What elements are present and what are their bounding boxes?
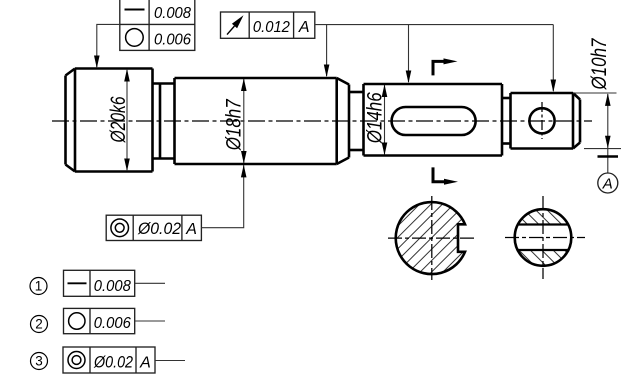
dimension Ø18h7 bbox=[243, 79, 245, 163]
note 3 balloon bbox=[31, 353, 48, 370]
note 1 frame straightness 0.008 bbox=[64, 270, 135, 296]
concentricity symbol bbox=[111, 219, 129, 237]
dimension Ø20k6 bbox=[126, 70, 128, 170]
leader arrow onto segment 4 bbox=[551, 80, 557, 93]
svg-text:0.006: 0.006 bbox=[94, 315, 131, 332]
neck groove between segment 3 and 4 bbox=[502, 98, 511, 144]
leader from concentricity frame to segment 2 bottom bbox=[201, 165, 243, 228]
svg-text:1: 1 bbox=[35, 279, 43, 294]
leader from straightness frame to segment 1 bbox=[97, 24, 120, 67]
leader arrow onto segment 2 bbox=[324, 65, 330, 78]
hole chords in right section bbox=[518, 225, 569, 251]
feature control frame concentricity (middle left) bbox=[106, 215, 201, 240]
main shaft centerline bbox=[52, 120, 592, 122]
section cut marker bottom bbox=[433, 167, 448, 181]
svg-text:0.012: 0.012 bbox=[253, 19, 290, 36]
straightness symbol bbox=[125, 9, 145, 11]
right section centerlines bbox=[505, 196, 585, 279]
svg-text:Ø14h6: Ø14h6 bbox=[363, 92, 387, 145]
cross hole vertical centerline bbox=[541, 102, 543, 139]
svg-text:A: A bbox=[298, 19, 310, 36]
leader from runout frame across top bbox=[315, 25, 554, 91]
value Ø0.02 bbox=[137, 220, 181, 238]
note 1 balloon bbox=[30, 278, 47, 295]
feature control frame circular runout (top middle) bbox=[221, 12, 315, 38]
cross-section of segment 4 with hole (right section view) bbox=[505, 145, 580, 323]
note 3 frame concentricity Ø0.02 A bbox=[63, 347, 155, 373]
note 2 balloon bbox=[31, 316, 48, 333]
cylinder segment 3 (Ø14h6) outline bbox=[364, 84, 503, 156]
chamfer transition segment2 to segment3 bbox=[337, 78, 364, 164]
svg-text:Ø20k6: Ø20k6 bbox=[107, 96, 131, 144]
feature control frame straightness+circularity (top left) bbox=[120, 0, 195, 50]
svg-text:0.008: 0.008 bbox=[94, 278, 131, 295]
svg-text:0.008: 0.008 bbox=[154, 5, 191, 22]
svg-text:A: A bbox=[139, 355, 151, 372]
value 0.012 bbox=[253, 19, 290, 36]
datum A symbol bbox=[607, 149, 609, 173]
svg-text:A: A bbox=[602, 176, 613, 193]
dimension Ø10h7 with extension lines bbox=[573, 93, 621, 149]
note 2 frame circularity 0.006 bbox=[64, 308, 135, 333]
datum letter A bbox=[185, 221, 197, 238]
svg-text:Ø10h7: Ø10h7 bbox=[588, 38, 612, 91]
neck groove between segment 1 and 2 bbox=[153, 84, 175, 159]
runout symbol arrow bbox=[227, 26, 235, 35]
dimension Ø14h6 bbox=[384, 85, 386, 155]
section cut marker top bbox=[433, 61, 448, 75]
value 0.008 bbox=[154, 5, 191, 22]
left section centerlines bbox=[388, 196, 476, 280]
keyway slot on segment 3 bbox=[392, 107, 476, 135]
value 0.006 bbox=[154, 32, 191, 49]
svg-text:Ø0.02: Ø0.02 bbox=[137, 220, 181, 238]
cross hole on segment 4 bbox=[529, 108, 554, 133]
svg-text:3: 3 bbox=[35, 354, 43, 369]
svg-text:Ø0.02: Ø0.02 bbox=[93, 354, 133, 372]
circularity symbol bbox=[126, 29, 144, 47]
cylinder segment 1 (Ø20k6) outline bbox=[66, 69, 153, 172]
cross-section of segment 3 with keyway (left section view) bbox=[316, 190, 548, 285]
svg-text:A: A bbox=[185, 221, 197, 238]
datum letter A bbox=[298, 19, 310, 36]
cylinder segment 4 (Ø10h7) outline bbox=[511, 93, 581, 149]
cylinder segment 2 (Ø18h7) outline bbox=[175, 78, 337, 164]
svg-text:0.006: 0.006 bbox=[154, 32, 191, 49]
svg-text:2: 2 bbox=[35, 317, 43, 332]
leader arrow onto segment 3 bbox=[406, 71, 412, 84]
svg-text:Ø18h7: Ø18h7 bbox=[222, 99, 246, 152]
